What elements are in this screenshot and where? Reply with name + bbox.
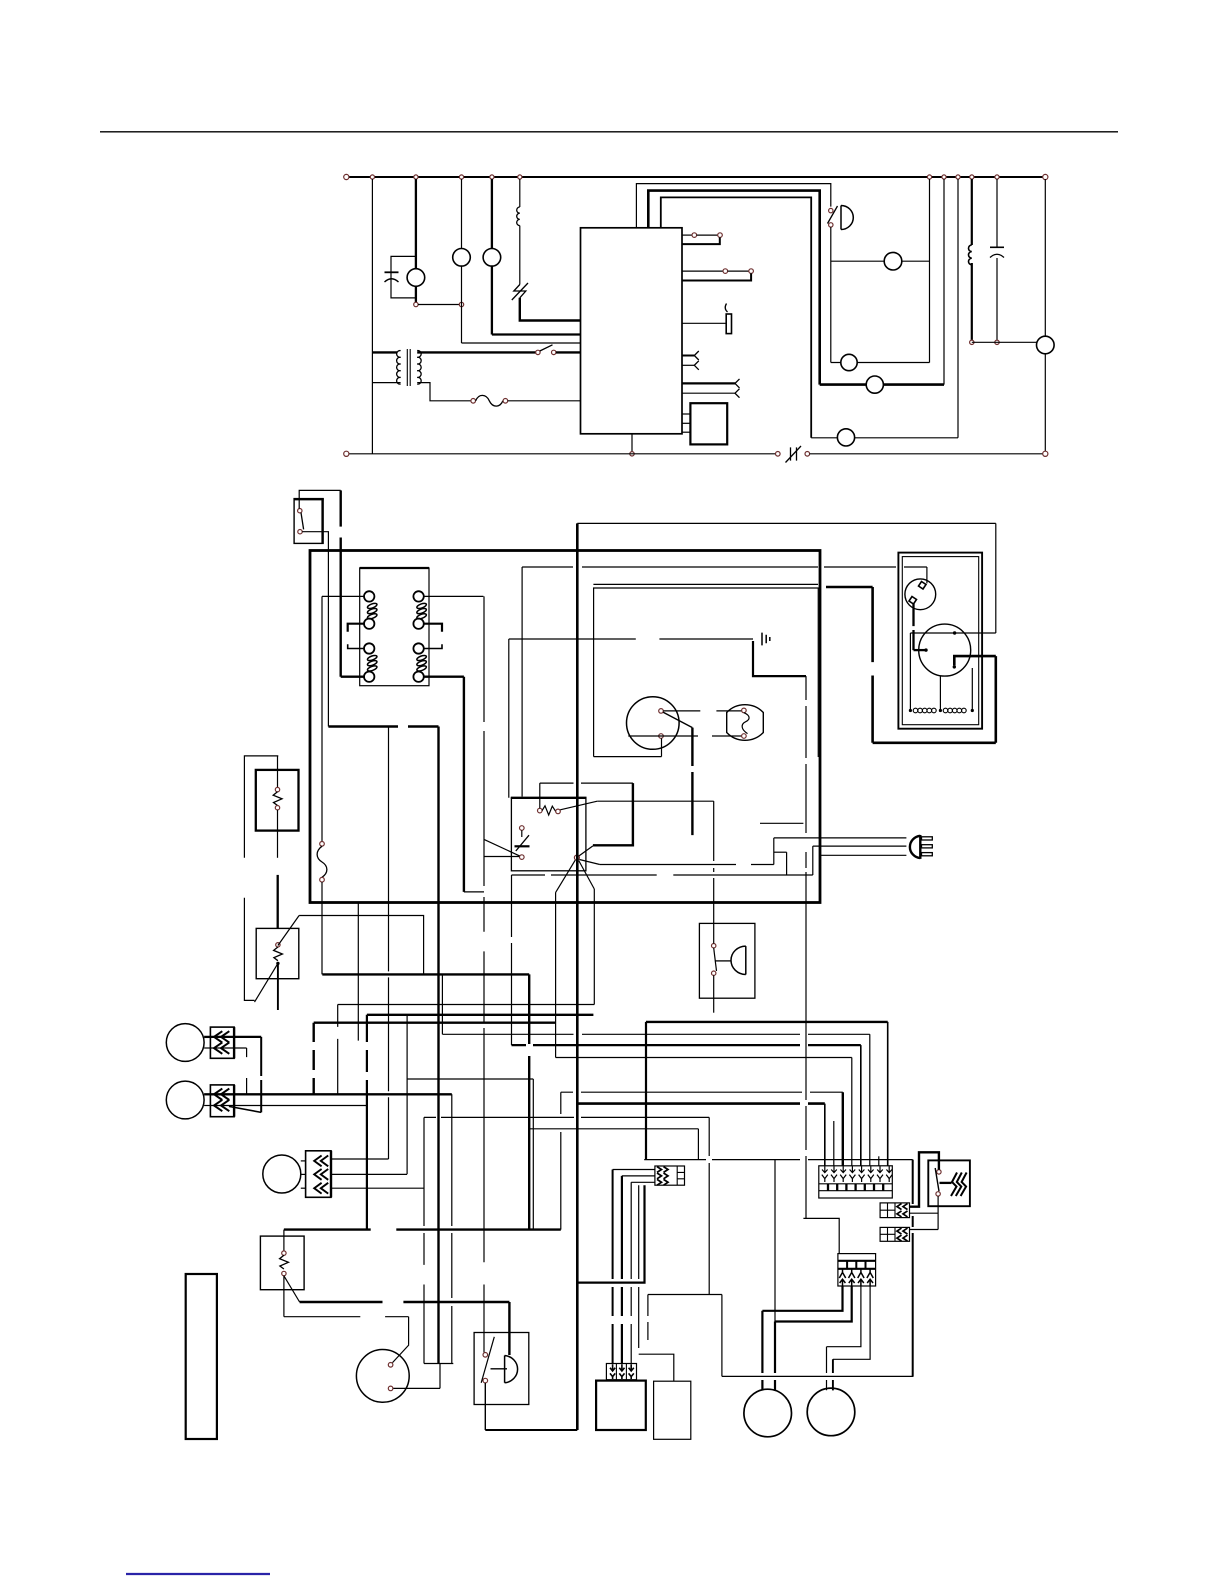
wire run-cap branch [415, 179, 417, 269]
lamp E1 contact b [742, 734, 747, 739]
wire fan-d drop [555, 893, 557, 1058]
wire CN5 pin3 drop [630, 1182, 632, 1364]
fuse F1 body [317, 846, 327, 877]
wire ground run [509, 638, 753, 640]
plug prong2 [922, 845, 933, 848]
lamp M2 [453, 248, 471, 266]
sensor X1 lead [725, 304, 727, 313]
wire W8 top run [561, 1091, 843, 1093]
wire timer motor feed drop [408, 1317, 410, 1345]
overload protector OL [905, 579, 936, 610]
MF3 stub a [301, 1160, 306, 1162]
wire M3 branch lower [491, 266, 493, 334]
node A1 [414, 302, 418, 306]
wire loop bottom [722, 1375, 914, 1377]
timer cam lower contact [520, 855, 525, 860]
wire CN5 pin1 drop [612, 1170, 614, 1365]
wire W0 drop [528, 974, 530, 1229]
CN-B arrows [897, 1228, 908, 1241]
wire W2 run [367, 1014, 594, 1016]
wire heater diag [579, 846, 593, 856]
wire R1 to cutout [519, 226, 521, 285]
winding W1 terminal a [909, 709, 912, 712]
light switch lever [663, 712, 692, 727]
wire mtr2 lead a drop [826, 1347, 828, 1391]
wire W5 right drop [532, 1079, 534, 1230]
relay coil3 winding [367, 654, 378, 672]
door switch S3 contact b [298, 530, 302, 534]
buzzer switch contact a [483, 1353, 488, 1358]
winding W2 loops [943, 708, 966, 713]
resistor R1 [517, 207, 520, 226]
door switch S3 contact a [298, 509, 302, 513]
fuse F2 element [476, 395, 503, 406]
relay block T1 [360, 568, 429, 686]
wire LC to motor [972, 341, 1037, 343]
wire fan-b diag [579, 860, 599, 865]
wire TH-B lever run [299, 916, 424, 975]
wire CN1 pin2 [210, 1047, 246, 1049]
wire W8 rise [560, 1092, 562, 1229]
fuse F2 right [503, 399, 508, 404]
wire ladder run [512, 874, 813, 876]
winding W2 terminal [971, 709, 974, 712]
sensor X1 [726, 314, 731, 334]
wire fan-b run [600, 864, 774, 866]
wire ladder c [812, 846, 814, 875]
wire S3 bottom lead [302, 532, 328, 727]
top rule [100, 131, 1118, 133]
wire CN2 pin1 drop [451, 1094, 453, 1363]
MC terminal bottom [953, 665, 956, 668]
buzzer BZ3 [731, 946, 746, 974]
buzzer switch lever [481, 1337, 494, 1383]
legend bar [186, 1274, 217, 1439]
inductor L2 [968, 245, 971, 265]
linkage coil1-coil3 b [348, 644, 365, 648]
timer cam slash [516, 835, 529, 851]
wire CN-A link [937, 1196, 939, 1229]
TS1 cell dividers [828, 1184, 883, 1191]
CN5 pin arrows [657, 1167, 668, 1186]
connector CN4 [838, 1254, 876, 1286]
pin row1 out [682, 234, 692, 236]
timer heater contact a [538, 808, 543, 813]
CN3 arrows [314, 1156, 328, 1194]
wire lamp feed a [753, 641, 806, 676]
wire to relay coil3 [341, 676, 365, 678]
wire K1 gap lead [697, 234, 718, 236]
timer cam lever [484, 840, 519, 856]
wire W2 left drop [366, 1015, 368, 1230]
timer heater lever [560, 801, 597, 810]
wire fan-b rise [773, 838, 775, 865]
wire W3 run [314, 1022, 556, 1024]
door switch S3 top edge [294, 498, 324, 500]
TH-B contact [276, 943, 280, 947]
MF3 stub c [301, 1187, 306, 1189]
wire col1 drop [824, 1104, 826, 1166]
MF1 plug stub b [204, 1047, 210, 1049]
node top-bus x997 [995, 175, 999, 179]
capacitor C2 plate [990, 246, 1004, 248]
lamp M3 [483, 248, 501, 266]
TH-A stem [277, 756, 279, 788]
CN-A cells [880, 1203, 895, 1218]
TH-C contact b [282, 1271, 286, 1275]
wire loop stub [647, 1295, 649, 1341]
wire col6 drop [869, 1034, 871, 1166]
wire heater lever out [597, 800, 714, 802]
wire G-path rise [994, 656, 997, 743]
relay coil4 bottom terminal [413, 672, 423, 682]
wire W5 drop [406, 1015, 408, 1174]
wire thick feeder drop [437, 727, 439, 1364]
light switch contact b [659, 734, 664, 739]
evap fan motor MF2 [166, 1081, 204, 1119]
wire into coil1 [322, 595, 364, 597]
pin row3 out [682, 322, 726, 324]
thermal cutout S2 [514, 285, 526, 298]
module X2 tab2 [682, 422, 690, 424]
node top-bus x944 [942, 175, 946, 179]
wire W0 run [322, 973, 529, 975]
wire S3 thick drop upper [340, 490, 342, 526]
wire S4-lamp bottom [628, 735, 741, 737]
pin chevron 4 head [735, 389, 740, 398]
wire W0 branch [529, 1128, 698, 1130]
wire CN1 diag [229, 1106, 261, 1112]
alarm switch contact a [829, 208, 833, 212]
wire strip bus tap [803, 1218, 839, 1253]
wire stub x358 [357, 903, 359, 1041]
wire loop left rise [721, 1295, 723, 1377]
CN2 right edge [233, 1085, 235, 1117]
pin chevron 3 head [735, 379, 740, 388]
thermostat TH-C stem [283, 1230, 285, 1251]
node top-bus x372 [370, 175, 374, 179]
node bottom bus [630, 452, 634, 456]
alarm2 lever [714, 948, 717, 971]
wire M3 branch upper [491, 179, 493, 249]
defrost switch contact a [776, 452, 781, 457]
lamp M7 [837, 429, 854, 446]
OL terminal a [919, 582, 927, 590]
switch S5 lever [540, 345, 553, 351]
wire fan-c run [338, 1004, 595, 1006]
alarm2 contact b [712, 971, 716, 975]
wire mtr1 lead b drop [774, 1322, 776, 1391]
TH-B lower dot [276, 962, 279, 965]
wire board top line2 [648, 191, 819, 385]
wire CN2 pin2 run [210, 1105, 367, 1107]
wire cord line3 [820, 854, 906, 856]
wire CN5 pin1 [613, 1169, 655, 1171]
CN5 cells [677, 1166, 684, 1185]
fan motor M4 [884, 252, 902, 270]
wire buzzer drop [484, 1383, 486, 1430]
wire alarm2 feed [713, 801, 715, 943]
CN6 cells [616, 1364, 626, 1380]
relay coil2 bottom terminal [413, 619, 423, 629]
timer common terminal [574, 855, 579, 860]
wire fuse lower [321, 882, 323, 974]
CN4 divider2 [838, 1268, 876, 1270]
wire board top line3 [661, 197, 811, 437]
wire ladder b [786, 852, 788, 875]
MC terminal top [953, 631, 956, 634]
heater switch contact a [937, 1170, 941, 1174]
wire alarm drop [830, 227, 832, 362]
TH-A contact b [275, 806, 279, 810]
linkage coil2-coil4 b [423, 644, 442, 648]
light housing bottom [594, 756, 662, 758]
defrost timer top edge [511, 797, 587, 799]
wire H-bridge b [439, 1364, 441, 1389]
light housing [594, 588, 819, 757]
terminal L1 right [1043, 174, 1048, 179]
wire CN5 pin2 drop [621, 1176, 623, 1364]
connector CN-A [880, 1203, 909, 1218]
wire CN3 pin3 rise [423, 1117, 425, 1363]
fuse F1 bottom [320, 877, 325, 882]
fan motor M5 [841, 354, 857, 370]
defrost switch ticks [791, 447, 797, 460]
module X2 tab1 [682, 413, 690, 415]
wire top bus L1 [349, 176, 1044, 178]
alarm switch contact b [829, 223, 833, 227]
transformer T1 secondary [417, 351, 421, 385]
motor M1 [407, 269, 425, 287]
node C2 bottom [995, 340, 999, 344]
wire W2 rise [971, 668, 973, 711]
door switch S3 box [294, 499, 323, 544]
control module box C [596, 1381, 646, 1430]
TS1 divider b [819, 1190, 893, 1192]
wire K2 return [682, 273, 751, 280]
wire CN5 pin4 drop [638, 1185, 640, 1354]
timer cam bar [515, 845, 530, 847]
wire col8 feed run [646, 1021, 888, 1023]
wire overload run [522, 566, 927, 568]
wire S4 bottom drop [661, 738, 663, 756]
thermostat TH-A box [256, 770, 299, 831]
wire col5 feed [512, 1044, 861, 1046]
wire lamp branch lower [461, 266, 463, 343]
wire K2 gap lead [728, 270, 749, 272]
alarm module box [699, 923, 755, 998]
wire loop top run [644, 1159, 913, 1161]
timer cam stem [521, 830, 523, 837]
node top-bus x971 [970, 175, 974, 179]
wire col3 drop [842, 1092, 844, 1166]
transformer T1 primary [397, 351, 401, 385]
linkage coil2-coil4 a [423, 624, 442, 632]
wire mtr2 lead b drop [832, 1359, 834, 1390]
light switch contact a [659, 709, 664, 714]
terminal L2 right [1043, 451, 1048, 456]
wire alarm2 out [713, 975, 715, 1012]
buzzer BZ1 [841, 206, 853, 230]
wire lamp row [811, 437, 958, 439]
wire A1-A2 [418, 304, 459, 306]
wire M1 to node [415, 286, 417, 302]
wire mtr1 lead b [775, 1286, 852, 1322]
TH-C lever [284, 1276, 300, 1302]
door switch S3 lever [301, 513, 304, 530]
relay coil3 bottom terminal [364, 672, 374, 682]
relay coil3 top terminal [364, 643, 374, 653]
wire thermoA feed lower [244, 898, 254, 1001]
condenser fan MF3 [263, 1155, 301, 1193]
TS1 divider a [819, 1183, 893, 1185]
wire board ground pin [631, 434, 633, 452]
wire primary top [372, 351, 397, 353]
wire board top line1 [636, 184, 830, 228]
node L2 bottom [970, 340, 974, 344]
wire cord line1 [774, 837, 907, 839]
wire W4 drop [441, 974, 443, 1034]
node top-bus x519 [518, 175, 522, 179]
wire CN5 pin4 jog [639, 1354, 674, 1381]
wire col5 riser [511, 875, 513, 1045]
wire CN3 pin1 rise [388, 727, 390, 1160]
wire bracket join [464, 891, 484, 893]
wire fan-c drop [593, 889, 595, 1005]
wire thermoA feed [244, 756, 278, 858]
CN-B cells [880, 1227, 895, 1241]
wire fuse to board [508, 400, 581, 402]
wire cam left lead [484, 856, 519, 858]
connector CN5 [655, 1166, 685, 1185]
TH-B lower stem [277, 963, 279, 1010]
node top-bus x491 [490, 175, 494, 179]
fan motor MB1 [744, 1389, 792, 1437]
defrost timer TM box [511, 798, 586, 871]
heater load M6 [866, 376, 883, 393]
pin chevron 2 head [694, 361, 699, 370]
light switch S4 [627, 697, 680, 750]
plug prong1 [922, 837, 933, 840]
timer heater contact b [556, 809, 561, 814]
wire coil2 drop lower [483, 1028, 485, 1352]
switch S5 contact b [552, 350, 556, 354]
wire loop upper left [648, 1294, 722, 1296]
wire timer motor diag [393, 1345, 409, 1363]
wire CN2 pin1 run [210, 1093, 451, 1095]
wire resistor branch [519, 179, 521, 207]
wire CN5 pin2 [622, 1175, 655, 1177]
connector CN-B [880, 1227, 909, 1241]
cabinet boundary [310, 551, 820, 903]
relay coil2 winding [416, 602, 427, 620]
thermal cutout S2 slash [512, 283, 528, 300]
TM1 contact a [388, 1363, 393, 1368]
CN6 pin arrows [610, 1364, 634, 1379]
wire heater bridge [910, 1152, 939, 1206]
relay coil1 winding [367, 602, 378, 620]
CN3 right edge [330, 1151, 332, 1198]
node A2 [459, 302, 463, 306]
wire col2 drop [833, 1121, 835, 1166]
wire CN3 pin2 [331, 1173, 407, 1175]
wire bus drop x929 [929, 179, 931, 363]
wire overload run drop [521, 567, 523, 797]
wire W0 branch drop [697, 1129, 699, 1160]
timer cam contact [520, 826, 525, 831]
capacitor C2 curved plate [990, 254, 1004, 257]
capacitor C1 curved plate [385, 279, 399, 282]
alarm2 link [716, 960, 732, 962]
wire fan row2 [831, 362, 930, 364]
wire lamp branch upper [461, 179, 463, 249]
relay coil4 winding [416, 654, 427, 672]
TH-A contact a [275, 787, 279, 791]
wire bottom bus L2 left [349, 453, 776, 455]
wire M3 into board [492, 333, 581, 335]
wire primary bottom [372, 382, 400, 384]
terminal L1 left [344, 174, 349, 179]
wire MC top run [910, 632, 995, 634]
wire main bus vertical [576, 523, 579, 1430]
CN-A arrows [897, 1204, 908, 1217]
thermostat TH-B box [256, 928, 299, 978]
wire OL to motor [914, 649, 927, 651]
module X2 [690, 403, 727, 444]
compressor shell outer [898, 553, 982, 729]
pin chevron 3 [682, 382, 735, 384]
node top-bus x929 [927, 175, 931, 179]
timer heater element [542, 806, 556, 815]
CN4 pin arrows [839, 1269, 873, 1286]
wire loop right drop [912, 1160, 914, 1377]
TS1 pin arrows [822, 1166, 892, 1182]
relay block top edge [360, 567, 429, 569]
MC terminal left [924, 648, 927, 651]
wire mtr1 lead a drop [761, 1311, 763, 1390]
CN1 right edge [233, 1027, 235, 1058]
wire fan row1 [831, 260, 930, 262]
wire CN1 pin1 [210, 1036, 261, 1038]
linkage coil1-coil3 a [348, 624, 365, 632]
buzzer switch contact b [483, 1378, 488, 1383]
MF2 plug stub b [204, 1105, 210, 1107]
heater switch contact b [936, 1192, 940, 1196]
wire W-mid rise [939, 676, 941, 710]
contact K1b [718, 233, 723, 238]
MF3 stub b [301, 1173, 306, 1175]
plug prong3 [922, 853, 933, 856]
wire W7 run [424, 1116, 709, 1118]
contact K2b [749, 269, 754, 274]
lamp E1 filament [742, 713, 749, 734]
wire W9 drop [508, 1302, 510, 1355]
connector CN1 [210, 1027, 234, 1058]
wire CN1 pin2 drop [246, 1048, 248, 1094]
wire CN5 pin3 [631, 1181, 655, 1183]
wire timer motor feed [284, 1316, 409, 1318]
relay coil4 top terminal [413, 643, 423, 653]
switch S5 contact a [536, 350, 540, 354]
wire G-path to MC [954, 656, 996, 665]
winding W1 terminal b [939, 709, 942, 712]
heater switch lever [935, 1168, 939, 1191]
relay coil1 bottom terminal [364, 619, 374, 629]
wire col7 stub [878, 1156, 880, 1166]
fuse F2 left [471, 399, 476, 404]
connector CN3 [306, 1151, 331, 1198]
wire coil4 drop [463, 677, 465, 892]
